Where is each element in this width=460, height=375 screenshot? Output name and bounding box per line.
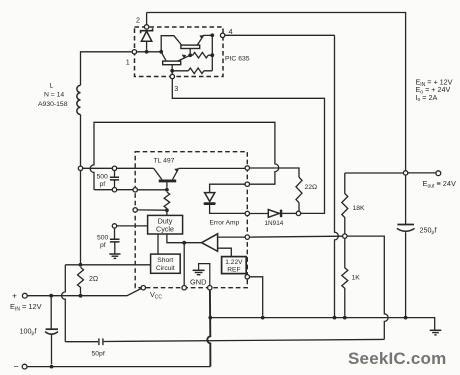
svg-text:1N914: 1N914 [265, 220, 284, 227]
svg-text:18K: 18K [353, 205, 366, 212]
capacitor C 500pf lower [110, 224, 148, 254]
svg-text:N = 14: N = 14 [44, 92, 64, 99]
block 1.22V REF [222, 257, 247, 274]
resistor R1 internal [190, 52, 212, 58]
pin circle ref right [245, 275, 249, 279]
inductor L [77, 85, 81, 114]
svg-text:pf: pf [100, 242, 106, 249]
ground symbol 500pf [109, 254, 120, 258]
svg-text:1.22V: 1.22V [225, 259, 243, 266]
svg-text:GND: GND [190, 277, 206, 286]
label L N=14 A930-158 [38, 83, 68, 108]
wire Eout down to cap [405, 175, 407, 224]
wire B pin segment [117, 189, 133, 191]
svg-text:250μf: 250μf [420, 225, 437, 235]
svg-text:Circuit: Circuit [156, 265, 175, 272]
svg-text:500: 500 [97, 174, 109, 181]
wire emitter line [179, 167, 246, 169]
junction dot Q1 collector tap [159, 50, 163, 54]
capacitor C 100uf [45, 298, 58, 365]
wire pin left upper [137, 189, 165, 191]
pin circle left lower [133, 208, 137, 212]
pin circle left upper [133, 188, 137, 192]
svg-text:100μf: 100μf [20, 326, 37, 336]
wire emitter ext to 22ohm [250, 168, 300, 177]
wire E_IN+ to Vcc pin [27, 289, 141, 296]
junction dot R1 right [210, 53, 214, 57]
capacitor C 50pf [99, 338, 103, 345]
wire GND down thick [207, 290, 210, 367]
svg-text:REF: REF [227, 267, 240, 274]
transistor Q3 TL497 [154, 168, 179, 188]
diode 1N914 [250, 210, 297, 218]
wire feedback to error amp [250, 235, 343, 238]
junction dot comp output [182, 241, 186, 245]
ground chassis symbol [430, 330, 442, 335]
pin 4 circle [220, 33, 224, 37]
wire inductor down upper [80, 115, 82, 167]
junction dot base top [165, 188, 169, 192]
pin circle GND [208, 286, 212, 290]
svg-text:A930-158: A930-158 [38, 101, 68, 108]
wire pin4 vertical with hop [335, 35, 339, 317]
junction dot 100uf bottom [50, 365, 54, 369]
wire collector line [83, 167, 154, 169]
wire Eout line [345, 172, 436, 174]
block Short Circuit [151, 254, 181, 273]
terminal Eout [436, 171, 441, 176]
wire pin left lower [137, 209, 165, 211]
transistor Q2 [181, 35, 212, 53]
capacitor C 500pf upper [110, 166, 119, 192]
wire rail2 left segment [65, 341, 98, 343]
pin circle anode right [245, 182, 249, 186]
node circle 22ohm-diode [296, 211, 300, 215]
wire duty to short [157, 234, 159, 254]
resistor 2ohm [78, 267, 84, 294]
resistor 22ohm [296, 177, 302, 203]
IC TL497 dashed box [135, 152, 247, 288]
wire pin4 internal vertical [211, 35, 213, 71]
wire rail2 feedback line [104, 339, 385, 341]
junction dot rail1 pin4line [333, 316, 337, 320]
junction dot R2 left [170, 69, 174, 73]
junction dot rail1 1K [343, 316, 347, 320]
svg-text:L: L [50, 83, 54, 90]
pin circle cathode right [245, 211, 249, 215]
ground symbol internal GND [193, 264, 210, 286]
junction dot rail1 250uf [404, 316, 408, 320]
pin circle emitter right [245, 166, 249, 170]
pin 3 circle [170, 74, 174, 78]
wire comp output down [183, 243, 185, 286]
wire feedback right segment [347, 236, 388, 339]
wire B loop around [90, 122, 279, 189]
module PIC635 dashed box [135, 27, 224, 77]
svg-text:−: − [14, 361, 19, 371]
wire base to duty [166, 210, 168, 215]
junction dot base bottom [165, 208, 169, 212]
wire 22ohm bottom [298, 203, 300, 212]
svg-text:1: 1 [126, 58, 130, 67]
node circle Eout junction [403, 171, 407, 175]
svg-text:Short: Short [157, 257, 173, 264]
wire rail3 bottom return [27, 366, 210, 368]
resistor 1K [342, 238, 348, 315]
junction dot 100uf top [49, 294, 53, 298]
wire Q1 collector loop to Q2 [161, 36, 181, 52]
svg-text:EIN = 12V: EIN = 12V [10, 302, 42, 313]
junction dot rail1 ref [261, 316, 265, 320]
wire feedback left vertical with hop [62, 265, 66, 342]
svg-text:3: 3 [174, 84, 178, 93]
wire pin4 rail [225, 34, 335, 36]
svg-text:500: 500 [97, 235, 109, 242]
svg-text:2Ω: 2Ω [89, 276, 98, 283]
node circle 18K-1K junction [343, 234, 347, 238]
pin 1 circle [132, 50, 136, 54]
resistor base internal [164, 192, 170, 208]
svg-text:TL 497: TL 497 [154, 158, 175, 165]
label 500pf upper [97, 174, 109, 188]
zener diode D1 [141, 28, 153, 50]
wire pin1 internal [137, 51, 162, 53]
junction dot pin4 node [210, 33, 214, 37]
wire pin1 to inductor [81, 52, 133, 86]
capacitor C 250uf [397, 225, 415, 318]
svg-text:+: + [12, 291, 17, 301]
wire pin2 up [146, 13, 148, 25]
svg-text:22Ω: 22Ω [305, 184, 318, 191]
svg-text:50pf: 50pf [92, 351, 105, 358]
wire ref pin to rail1 [250, 277, 263, 316]
pin 2 circle [144, 25, 148, 29]
svg-text:Cycle: Cycle [156, 225, 174, 234]
resistor R2 internal [172, 68, 212, 74]
svg-text:pf: pf [100, 181, 106, 188]
pin circle Vcc [141, 286, 145, 290]
diode internal D2 [204, 184, 246, 213]
op-amp error amplifier [167, 234, 245, 257]
wire inductor down lower [80, 171, 82, 265]
svg-text:1K: 1K [352, 275, 361, 282]
junction dot zener-pin1 [145, 50, 149, 54]
junction dot Q2 base [188, 53, 192, 57]
junction dot 2ohm top [79, 263, 83, 267]
transistor Q1 [161, 52, 190, 74]
svg-text:2: 2 [136, 15, 140, 24]
label 500pf lower [97, 235, 109, 249]
wire 2ohm top branch [65, 264, 150, 266]
pin circle comp out [182, 286, 186, 290]
svg-text:SeekIC.com: SeekIC.com [348, 349, 446, 368]
junction dot rail1 gnd [208, 316, 212, 320]
resistor 18K [342, 173, 348, 234]
block Duty Cycle [148, 215, 183, 234]
node circle inductor tap [78, 166, 82, 170]
junction dot 2ohm bottom [79, 294, 83, 298]
terminal + E_IN [12, 291, 27, 301]
wire rail1 ground rail [210, 318, 434, 330]
pin circle feedback right [245, 235, 249, 239]
wire pin3 rail [172, 79, 324, 214]
wire top rail pin2 to Eout [147, 13, 406, 171]
label spec block [416, 78, 453, 104]
svg-text:PIC 635: PIC 635 [225, 56, 250, 63]
svg-text:Error Amp: Error Amp [210, 219, 240, 226]
terminal - (ground return) [14, 361, 28, 371]
